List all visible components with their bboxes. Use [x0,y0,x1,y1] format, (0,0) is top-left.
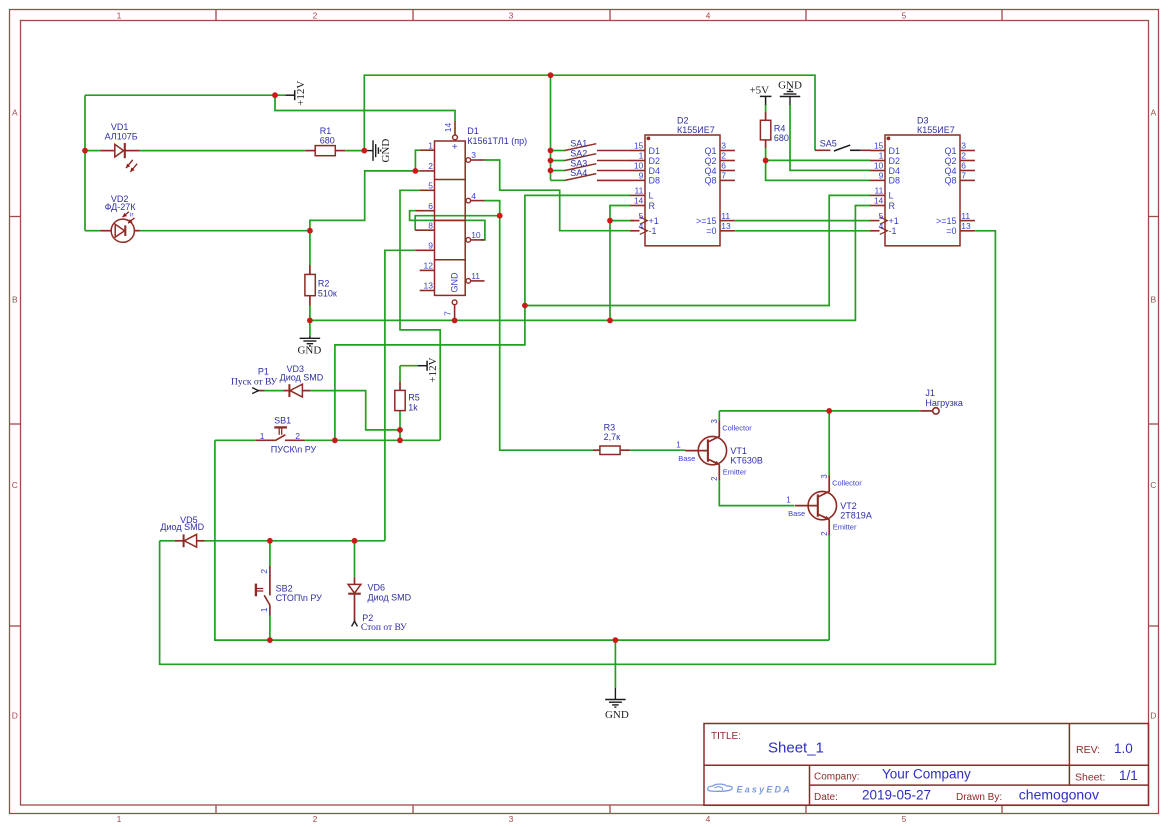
svg-text:11: 11 [471,271,480,281]
port P2 (Стоп от ВУ) [352,621,358,626]
svg-text:5: 5 [902,814,907,824]
wire left column VD1/VD2 [84,95,86,231]
svg-text:SA2: SA2 [570,148,587,158]
transistor VT1 KT630B [685,421,727,481]
svg-text:7: 7 [961,171,966,181]
D3 K155IE7 pin 15 (D1) [870,150,885,152]
IC D1 K1561TL1 [435,141,466,295]
D2 K155IE7 pin 11 (&gt;=15) [720,220,735,222]
junction R/+1 [607,218,613,224]
ground flag GND (top, to D3 D4) [780,90,801,106]
svg-text:R1: R1 [320,126,332,136]
junction VD3/R5 [397,427,403,433]
D1 pin 2 [420,170,435,172]
svg-text:A: A [12,108,18,118]
svg-text:SA4: SA4 [570,168,587,178]
svg-text:Стоп от ВУ: Стоп от ВУ [361,623,407,633]
junction SB2 bottom [267,637,273,643]
wire +12V to D1 pin14 [275,95,455,121]
wire to VT1 collector [718,411,720,421]
svg-text:2: 2 [721,151,726,161]
diode VD6 (vertical) [354,577,356,584]
svg-text:1/1: 1/1 [1119,768,1138,783]
svg-text:D8: D8 [889,176,901,186]
svg-text:Collector: Collector [722,423,752,432]
svg-text:Emitter: Emitter [833,522,857,531]
wire R1 to GND node [345,150,364,152]
D3 K155IE7 pin 6 (Q4) [960,170,975,172]
diode VD3 symbol [289,384,302,397]
svg-text:12: 12 [424,261,434,271]
svg-text:4: 4 [706,814,711,824]
svg-text:D1: D1 [889,146,901,156]
svg-text:2: 2 [259,569,269,574]
switch SA5 [815,149,830,151]
svg-text:2: 2 [961,151,966,161]
svg-text:VT2: VT2 [840,501,857,511]
svg-text:C: C [1150,480,1156,490]
ground flag GND (R1 net) [366,140,381,161]
svg-text:1.0: 1.0 [1114,741,1133,756]
svg-text:-1: -1 [649,226,657,236]
wire GND rail to SA5 [364,75,815,150]
D2 K155IE7 pin 6 (Q4) [720,170,735,172]
svg-text:SA3: SA3 [570,158,587,168]
svg-text:11: 11 [874,186,883,196]
svg-text:D: D [1150,711,1156,721]
svg-text:>=15: >=15 [696,216,717,226]
wire VD6 top [354,541,356,577]
svg-text:D3: D3 [917,116,929,126]
svg-text:Your Company: Your Company [882,767,971,782]
svg-text:680: 680 [320,136,335,146]
svg-text:L: L [889,191,894,201]
svg-text:3: 3 [721,141,726,151]
wire R5 bottom [399,411,401,441]
wire to VD1 anode [85,150,100,152]
svg-text:Q8: Q8 [704,176,716,186]
svg-text:4: 4 [706,10,711,20]
svg-text:2: 2 [313,814,318,824]
svg-text:D: D [12,711,18,721]
D3 K155IE7 pin 13 (=0) [960,230,975,232]
D3 K155IE7 pin 11 (L) [870,194,885,196]
wire bottom A [215,440,829,640]
wire to +12V flag2 [400,365,418,367]
svg-text:Q4: Q4 [944,166,956,176]
svg-text:C: C [12,480,18,490]
svg-text:1k: 1k [408,402,418,412]
svg-text:9: 9 [639,171,644,181]
svg-text:14: 14 [634,196,644,206]
svg-text:D1: D1 [467,126,479,136]
wire GND net to D3 R [310,206,871,321]
svg-text:1: 1 [260,431,265,441]
EasyEDA logo [708,784,733,791]
svg-text:Base: Base [678,454,695,463]
svg-text:8: 8 [428,220,433,230]
svg-text:R3: R3 [604,422,616,432]
svg-text:SA5: SA5 [820,138,837,148]
svg-text:SB1: SB1 [274,415,291,425]
svg-text:TITLE:: TITLE: [711,731,741,742]
svg-text:6: 6 [721,161,726,171]
svg-text:К1561ТЛ1 (пр): К1561ТЛ1 (пр) [467,136,527,146]
svg-text:GND: GND [778,79,802,91]
wire to VD2 [85,230,100,232]
svg-text:KT630B: KT630B [730,456,763,466]
svg-text:1: 1 [676,441,681,450]
wire SA1 feed [551,150,566,152]
svg-text:Date:: Date: [814,792,838,803]
svg-text:D2: D2 [889,156,901,166]
wire VT1 collector to J1 [719,410,920,412]
svg-text:3: 3 [509,10,514,20]
wire VD2 net to D1 pin2 [310,171,416,231]
svg-text:+12V: +12V [427,357,439,382]
resistor R3 2,7k [600,446,620,455]
svg-text:1: 1 [879,151,884,161]
D1 pin 1 [420,149,435,151]
D2 K155IE7 pin 14 (R) [630,205,645,207]
D1 pin 5 [420,189,435,191]
svg-text:1: 1 [428,140,433,150]
svg-text:5: 5 [879,211,884,221]
D1 pin 4 [466,198,471,203]
resistor R4 680 [760,120,770,140]
wire D1 pin9 down [385,250,415,541]
D1 pin 7 [452,300,457,305]
svg-text:Диод SMD: Диод SMD [280,373,324,383]
svg-text:Q2: Q2 [704,156,716,166]
svg-text:VD1: VD1 [111,122,129,132]
wire to GND bottom [614,640,616,688]
svg-text:Q1: Q1 [704,146,716,156]
svg-text:13: 13 [721,221,731,231]
svg-text:Company:: Company: [814,771,860,782]
D2 K155IE7 pin 11 (L) [630,194,645,196]
wire VD2 to node [134,230,310,232]
D1 pin 3 [466,158,471,163]
wire SA2 feed [551,160,566,162]
svg-text:SA1: SA1 [570,138,587,148]
svg-text:D8: D8 [649,176,661,186]
svg-text:Collector: Collector [832,478,862,487]
junction SA3 [548,168,554,174]
wire VD3 to R5 node [310,391,400,430]
svg-text:+: + [452,142,458,153]
svg-text:P1: P1 [258,366,269,376]
photodiode VD2 [100,219,139,242]
svg-text:3: 3 [710,419,719,424]
svg-text:7: 7 [721,171,726,181]
D1 pin 8 [415,229,434,231]
D2 K155IE7 pin 13 (=0) [720,230,735,232]
transistor VT2 2T819A [795,476,837,536]
resistor R2 510k [305,274,315,295]
svg-text:GND: GND [605,709,629,721]
svg-text:2: 2 [820,531,829,536]
power flag +5V [760,96,772,105]
svg-text:SB2: SB2 [276,583,293,593]
port P1 (Пуск от ВУ) [252,388,258,394]
svg-text:R4: R4 [774,124,786,134]
resistor R1 680 [315,146,335,156]
junction D1 pin7 [452,318,458,324]
svg-text:1: 1 [639,151,644,161]
svg-text:B: B [12,295,18,305]
wire bottom B to D3 pin13 [160,231,996,665]
wire to GND below R2 [309,320,311,335]
power flag +12V (net 2) [418,361,428,371]
D2 K155IE7 pin 15 (D1) [630,150,645,152]
svg-text:-1: -1 [889,226,897,236]
svg-text:7: 7 [442,311,452,316]
svg-text:Sheet:: Sheet: [1075,771,1105,783]
svg-text:5: 5 [639,211,644,221]
D1 pin 11 [466,279,471,284]
svg-text:АЛ107Б: АЛ107Б [105,132,138,142]
svg-text:Sheet_1: Sheet_1 [768,740,824,757]
D3 K155IE7 pin 10 (D4) [870,170,885,172]
diode VD3 [258,390,264,392]
svg-text:СТОП\n РУ: СТОП\n РУ [276,593,323,603]
wire GND flag to D3 D4in [790,105,871,170]
wire D1 pin4 node to R3 [485,201,594,451]
svg-text:9: 9 [879,171,884,181]
svg-text:Q4: Q4 [704,166,716,176]
ground flag GND (below R2) [300,336,321,346]
D3 K155IE7 pin 5 (+1) [870,220,879,222]
junction VD1 left [82,148,88,154]
svg-text:Base: Base [788,509,805,518]
svg-text:Drawn By:: Drawn By: [956,792,1002,803]
IC D3 K155IE7 [885,135,960,246]
D2 K155IE7 pin 1 (D2) [630,160,645,162]
diode VD5 [175,540,183,542]
resistor R5 1k [395,390,405,410]
wire P1 to VD3 [265,390,284,392]
svg-text:1: 1 [786,496,791,505]
svg-text:3: 3 [509,814,514,824]
junction J1/VT2 [826,408,832,414]
D1 pin 14 [454,121,456,135]
D3 K155IE7 pin 3 (Q1) [960,150,975,152]
wire D1 pin3 to D2 -1 [485,160,631,231]
D1 pin 9 [415,249,434,251]
svg-text:1: 1 [259,607,269,612]
svg-text:1: 1 [117,10,122,20]
svg-text:11: 11 [721,211,730,221]
wire node to R2 [309,231,311,265]
svg-text:Диод SMD: Диод SMD [368,592,412,602]
wire SA3 feed [551,170,566,172]
junction R2/GND net [307,318,313,324]
switch SA3 [565,164,597,171]
wire VT2 emitter down [828,535,830,641]
wire D2 =0 to D3 -1 [735,230,871,232]
svg-text:13: 13 [961,221,971,231]
svg-text:+12V: +12V [295,81,307,106]
svg-text:10: 10 [874,161,884,171]
svg-text:Q2: Q2 [944,156,956,166]
svg-text:D4: D4 [649,166,661,176]
svg-text:5: 5 [902,10,907,20]
wire VD1 to R1 [140,150,306,152]
svg-text:14: 14 [874,196,884,206]
wire SB1 pin2 net [305,439,440,441]
pushbutton SB1 [256,427,305,440]
wire VT1 emitter to VT2 base [719,480,794,506]
wire R3 to VT1 base [630,449,685,451]
svg-text:3: 3 [961,141,966,151]
wire D1 pin6 to pin10 [410,211,485,240]
pushbutton SB2 [256,566,270,616]
svg-text:REV:: REV: [1076,744,1100,756]
svg-text:EasyEDA: EasyEDA [737,784,792,794]
svg-text:+1: +1 [889,216,899,226]
svg-text:14: 14 [443,123,453,133]
svg-text:680: 680 [774,133,789,143]
svg-text:510к: 510к [318,288,337,298]
svg-text:Q8: Q8 [944,176,956,186]
wire R4 node to D3 D8in [766,160,871,180]
svg-text:3: 3 [471,150,476,160]
svg-text:11: 11 [961,211,970,221]
wire R2 to GND net [309,306,311,321]
svg-text:4: 4 [879,221,884,231]
svg-text:GND: GND [297,345,321,357]
wire R4 to D3 D2in [766,159,871,161]
svg-text:10: 10 [634,161,644,171]
D2 K155IE7 pin 9 (D8) [630,179,645,181]
svg-text:2019-05-27: 2019-05-27 [862,787,931,802]
svg-text:ПУСК\n РУ: ПУСК\n РУ [271,445,317,455]
junction SA2 [548,158,554,164]
wire to D1 pin1 [415,150,419,171]
junction R4 net [763,158,769,164]
D1 pin 6 [415,210,434,212]
svg-text:4: 4 [471,191,476,201]
junction VD6 top [352,538,358,544]
power flag +12V (net 1) [285,90,295,100]
junction SB2 top [267,538,273,544]
wire SB2 bottom [269,616,271,641]
svg-text:VD6: VD6 [368,583,386,593]
svg-text:GND: GND [380,139,392,163]
svg-text:6: 6 [428,201,433,211]
D3 K155IE7 pin 4 (-1) [870,230,879,232]
wire D2 &gt;=15 to D3 +1 [735,220,871,222]
svg-text:4: 4 [639,221,644,231]
svg-text:10: 10 [471,230,481,240]
wire VD5 row [205,540,385,542]
D3 K155IE7 pin 1 (D2) [870,160,885,162]
D3 K155IE7 pin 11 (&gt;=15) [960,220,975,222]
svg-text:1: 1 [117,814,122,824]
svg-text:=0: =0 [706,226,716,236]
D2 K155IE7 pin 4 (-1) [630,230,639,232]
svg-text:R: R [889,201,896,211]
svg-text:>=15: >=15 [936,216,957,226]
svg-text:15: 15 [874,141,884,151]
svg-text:2T819A: 2T819A [840,511,872,521]
svg-text:5: 5 [428,181,433,191]
D2 K155IE7 pin 2 (Q2) [720,160,735,162]
title block [704,724,1149,806]
svg-text:13: 13 [424,281,434,291]
wire R5 top [399,366,401,382]
wire +5V to R4 [765,105,767,112]
svg-text:11: 11 [634,186,643,196]
wire L net to D3 L [525,195,871,305]
svg-text:+1: +1 [649,216,659,226]
svg-text:GND: GND [449,272,459,293]
svg-text:2: 2 [428,161,433,171]
svg-text:К155ИЕ7: К155ИЕ7 [917,125,955,135]
junction +12V [272,92,278,98]
IC D2 K155IE7 [645,135,720,246]
switch SA2 [565,154,597,161]
switch SA4 [565,174,597,181]
svg-text:+5V: +5V [749,84,769,96]
svg-text:2: 2 [313,10,318,20]
svg-text:Emitter: Emitter [723,467,747,476]
diode VD5 symbol [184,534,197,547]
svg-text:D4: D4 [889,166,901,176]
svg-text:6: 6 [961,161,966,171]
junction GND bottom [613,637,619,643]
svg-text:2: 2 [295,431,300,441]
svg-text:Диод SMD: Диод SMD [160,522,204,532]
junction R net/GND [607,318,613,324]
svg-text:2: 2 [710,476,719,481]
svg-text:R: R [649,201,656,211]
svg-text:Нагрузка: Нагрузка [925,398,962,408]
D3 K155IE7 pin 14 (R) [870,205,885,207]
svg-text:15: 15 [634,141,644,151]
wire to D1 pin2 stub [415,170,419,172]
D3 K155IE7 pin 9 (D8) [870,179,885,181]
wire VD5 left [160,540,175,542]
svg-text:9: 9 [428,241,433,251]
svg-text:Пуск от ВУ: Пуск от ВУ [231,378,278,388]
svg-text:ФД-27К: ФД-27К [105,202,137,212]
junction SA rail [548,72,554,78]
junction SA1 [548,148,554,154]
wire SA4 feed [551,179,566,181]
D2 K155IE7 pin 5 (+1) [630,220,639,222]
LED VD1 [100,143,139,158]
svg-text:3: 3 [820,474,829,479]
D3 K155IE7 pin 7 (Q8) [960,179,975,181]
connector J1 (Нагрузка) [920,410,933,412]
ground flag GND (bottom) [605,688,626,707]
svg-text:=0: =0 [946,226,956,236]
wire to D2 +1 [610,220,634,222]
svg-text:D2: D2 [649,156,661,166]
switch SA1 [565,144,597,151]
junction D1 pin2 [413,168,419,174]
svg-text:P2: P2 [362,613,373,623]
D1 pin 12 [420,269,435,271]
D2 K155IE7 pin 10 (D4) [630,170,645,172]
junction L net [522,303,528,309]
junction pin8/pin4 net [497,213,503,219]
svg-text:L: L [649,191,654,201]
wire D2 L net [335,195,631,440]
junction SB1/L net [332,437,338,443]
